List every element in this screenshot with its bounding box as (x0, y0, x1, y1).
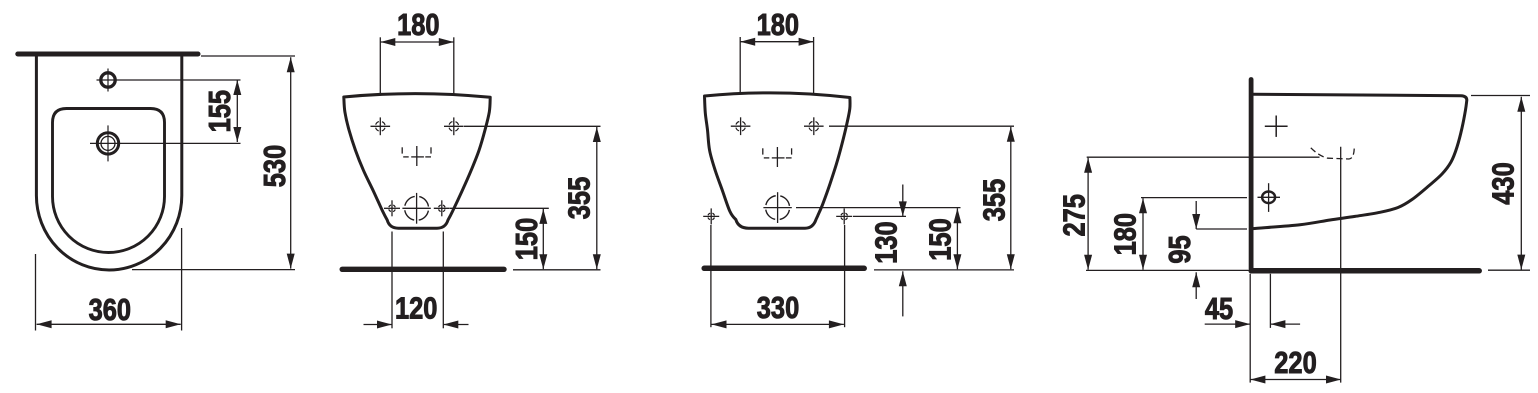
svg-text:95: 95 (1162, 235, 1197, 263)
svg-text:530: 530 (257, 145, 292, 187)
svg-text:150: 150 (922, 218, 957, 260)
svg-text:275: 275 (1056, 194, 1091, 236)
svg-text:360: 360 (89, 291, 131, 326)
svg-text:130: 130 (868, 221, 903, 263)
svg-text:155: 155 (201, 90, 236, 132)
svg-text:330: 330 (757, 290, 799, 325)
svg-text:430: 430 (1485, 162, 1520, 204)
svg-text:355: 355 (561, 177, 596, 219)
svg-text:120: 120 (395, 290, 437, 325)
svg-text:220: 220 (1274, 345, 1316, 380)
svg-text:180: 180 (1107, 213, 1142, 255)
svg-text:45: 45 (1205, 291, 1233, 326)
svg-text:355: 355 (976, 179, 1011, 221)
svg-text:150: 150 (509, 218, 544, 260)
svg-text:180: 180 (757, 7, 799, 42)
svg-text:180: 180 (397, 7, 439, 42)
